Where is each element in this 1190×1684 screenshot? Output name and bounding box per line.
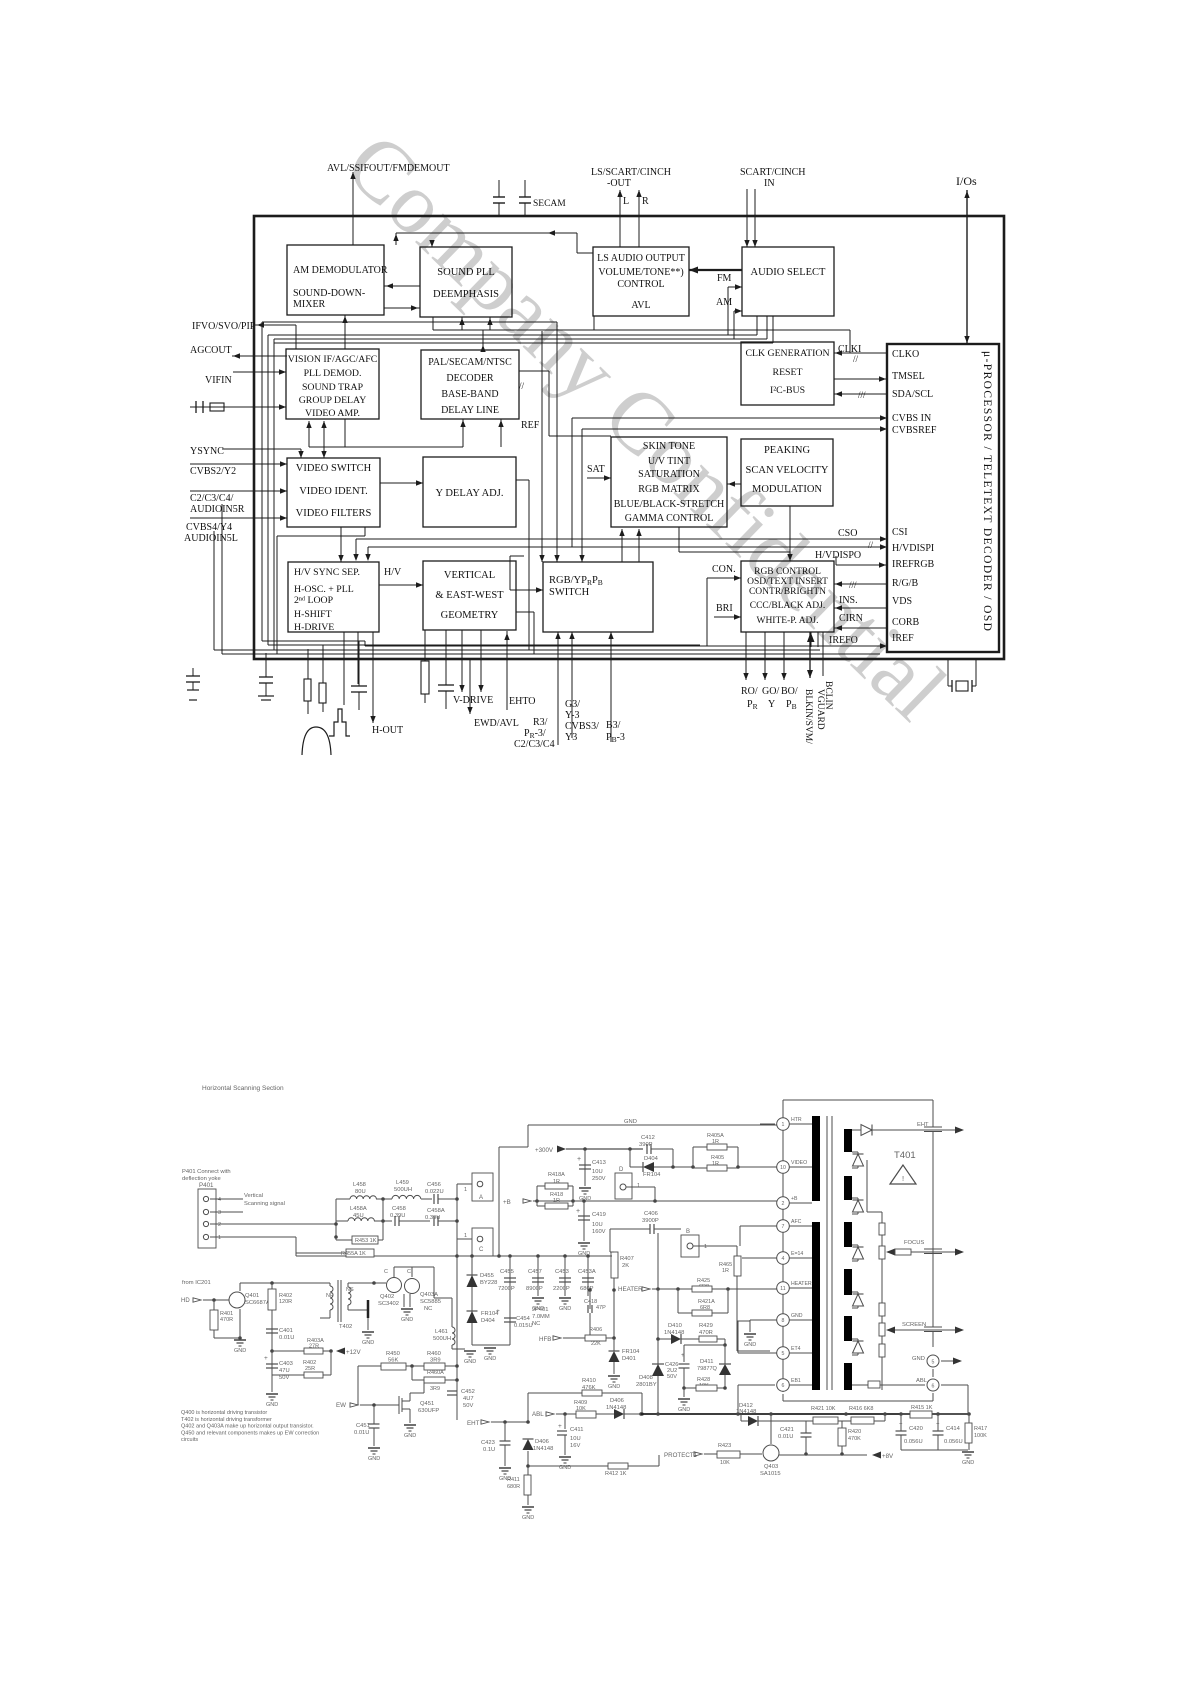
svg-text:SKIN TONE: SKIN TONE — [643, 441, 695, 452]
svg-text:4U7: 4U7 — [463, 1396, 474, 1402]
svg-text:PAL/SECAM/NTSC: PAL/SECAM/NTSC — [428, 357, 512, 368]
svg-text:PR: PR — [747, 699, 758, 711]
svg-text:SCREEN: SCREEN — [902, 1322, 926, 1328]
svg-text:///: /// — [858, 390, 866, 400]
svg-text:TMSEL: TMSEL — [892, 371, 925, 382]
svg-text:C2/C3/C4/: C2/C3/C4/ — [190, 493, 234, 504]
svg-text:C413: C413 — [592, 1160, 606, 1166]
svg-text:C2/C3/C4: C2/C3/C4 — [514, 739, 555, 750]
svg-text:IN: IN — [764, 178, 775, 189]
svg-text:Y3: Y3 — [565, 732, 577, 743]
svg-text:16V: 16V — [570, 1443, 580, 1449]
svg-text:0.1U: 0.1U — [483, 1447, 495, 1453]
svg-text:GND: GND — [368, 1456, 380, 1462]
svg-text:10K: 10K — [720, 1460, 730, 1466]
svg-text:CVBS2/Y2: CVBS2/Y2 — [190, 466, 236, 477]
svg-text:B: B — [686, 1229, 690, 1235]
svg-text:B3/: B3/ — [606, 720, 621, 731]
svg-text:D455: D455 — [480, 1273, 494, 1279]
svg-text:H-SHIFT: H-SHIFT — [294, 609, 332, 620]
svg-text:GND: GND — [464, 1359, 476, 1365]
svg-text:CSO: CSO — [838, 528, 857, 539]
svg-text:CVBS IN: CVBS IN — [892, 413, 931, 424]
svg-text:+B: +B — [791, 1196, 798, 1202]
svg-text:C412: C412 — [641, 1135, 655, 1141]
svg-text:AM: AM — [716, 297, 732, 308]
svg-text:CONTR/BRIGHTN: CONTR/BRIGHTN — [749, 587, 826, 597]
svg-text:160V: 160V — [592, 1229, 606, 1235]
svg-text:2200P: 2200P — [553, 1286, 570, 1292]
svg-text:ET4: ET4 — [791, 1346, 801, 1352]
svg-text:C406: C406 — [644, 1211, 658, 1217]
svg-text:C420: C420 — [909, 1426, 923, 1432]
svg-text:250V: 250V — [592, 1176, 606, 1182]
svg-text:REF: REF — [521, 420, 540, 431]
svg-text:GND: GND — [362, 1340, 374, 1346]
svg-text:AUDIO SELECT: AUDIO SELECT — [751, 267, 827, 278]
svg-text:Vertical: Vertical — [244, 1193, 263, 1199]
svg-text:SAT: SAT — [587, 464, 605, 475]
svg-text:RGB MATRIX: RGB MATRIX — [638, 484, 700, 495]
svg-text:HD: HD — [181, 1298, 190, 1304]
svg-text:Q402: Q402 — [380, 1294, 394, 1300]
svg-text:L459: L459 — [396, 1180, 409, 1186]
svg-text:6: 6 — [932, 1384, 935, 1390]
svg-text:R429: R429 — [699, 1323, 713, 1329]
svg-text:GND: GND — [234, 1348, 246, 1354]
svg-text:Scanning signal: Scanning signal — [244, 1201, 285, 1207]
svg-text:RO/: RO/ — [741, 686, 758, 697]
svg-text:P401: P401 — [199, 1182, 214, 1189]
svg-text:10: 10 — [780, 1165, 786, 1171]
svg-text:470K: 470K — [848, 1436, 861, 1442]
svg-text:1: 1 — [464, 1187, 467, 1193]
svg-text:GND: GND — [791, 1313, 803, 1319]
svg-text:+: + — [576, 1208, 580, 1215]
svg-text:0.01U: 0.01U — [354, 1430, 369, 1436]
svg-text:+300V: +300V — [535, 1147, 554, 1154]
svg-text:EHT: EHT — [467, 1420, 480, 1427]
svg-text:L: L — [623, 196, 629, 207]
svg-text:SC5885: SC5885 — [420, 1299, 441, 1305]
svg-text:L458A: L458A — [350, 1206, 367, 1212]
svg-text:H-OSC. + PLL: H-OSC. + PLL — [294, 584, 354, 595]
svg-text:HEATER: HEATER — [791, 1281, 812, 1287]
svg-text:C414: C414 — [946, 1426, 961, 1432]
svg-text:680P: 680P — [580, 1286, 594, 1292]
svg-text:GROUP DELAY: GROUP DELAY — [299, 395, 367, 406]
svg-text:Y: Y — [768, 699, 775, 710]
svg-text:FR104: FR104 — [643, 1172, 661, 1178]
svg-text:4: 4 — [782, 1256, 785, 1262]
svg-text:630UFP: 630UFP — [418, 1408, 439, 1414]
svg-text:HTR: HTR — [791, 1117, 802, 1123]
svg-text:NP: NP — [326, 1293, 334, 1299]
svg-text:E=14: E=14 — [791, 1251, 803, 1257]
svg-text:C456: C456 — [427, 1182, 441, 1188]
svg-text:D: D — [619, 1167, 624, 1173]
svg-text:D406: D406 — [610, 1398, 624, 1404]
svg-text:470R: 470R — [220, 1317, 233, 1323]
svg-text:7: 7 — [782, 1224, 785, 1230]
svg-text:2: 2 — [218, 1222, 221, 1228]
svg-text:+: + — [681, 1352, 685, 1359]
svg-text:H/V SYNC SEP.: H/V SYNC SEP. — [294, 567, 360, 578]
svg-text:Y DELAY ADJ.: Y DELAY ADJ. — [436, 488, 504, 499]
svg-text:RGB/YPRPB: RGB/YPRPB — [549, 575, 603, 587]
svg-text:EWD/AVL: EWD/AVL — [474, 718, 519, 729]
svg-text:MODULATION: MODULATION — [752, 484, 822, 495]
svg-text:1: 1 — [218, 1235, 221, 1241]
svg-text:7200P: 7200P — [498, 1286, 515, 1292]
svg-text:R453 1K: R453 1K — [355, 1238, 377, 1244]
svg-text:470R: 470R — [699, 1330, 713, 1336]
svg-text:VIDEO AMP.: VIDEO AMP. — [305, 408, 360, 419]
svg-text:C419: C419 — [592, 1212, 606, 1218]
svg-text:8: 8 — [782, 1318, 785, 1324]
svg-text:+: + — [577, 1156, 581, 1163]
svg-text:CON.: CON. — [712, 564, 736, 575]
svg-text:22K: 22K — [591, 1341, 601, 1347]
svg-text:8900P: 8900P — [526, 1286, 543, 1292]
svg-text:Q403A: Q403A — [420, 1292, 438, 1298]
svg-text:μ-PROCESSOR / TELETEXT DECODER: μ-PROCESSOR / TELETEXT DECODER / OSD — [981, 351, 993, 632]
svg-text:BY228: BY228 — [480, 1280, 497, 1286]
svg-text:D404: D404 — [644, 1156, 659, 1162]
svg-text:5: 5 — [932, 1360, 935, 1366]
svg-text:VIDEO SWITCH: VIDEO SWITCH — [296, 463, 372, 474]
svg-text:SC3402: SC3402 — [378, 1301, 399, 1307]
svg-text:5: 5 — [782, 1351, 785, 1357]
svg-text:YSYNC: YSYNC — [190, 446, 224, 457]
svg-text:SOUND PLL: SOUND PLL — [437, 267, 494, 278]
svg-text:C421: C421 — [780, 1427, 794, 1433]
svg-text:HEATER: HEATER — [618, 1286, 643, 1293]
svg-text:CSI: CSI — [892, 527, 908, 538]
svg-text:CVBSREF: CVBSREF — [892, 425, 937, 436]
svg-text:0.056U: 0.056U — [944, 1439, 963, 1445]
svg-text:GND: GND — [624, 1119, 637, 1125]
svg-text:AM DEMODULATOR: AM DEMODULATOR — [293, 265, 388, 276]
svg-text:100K: 100K — [974, 1433, 987, 1439]
svg-text:R421 10K: R421 10K — [811, 1406, 836, 1412]
svg-text:NC: NC — [424, 1306, 432, 1312]
svg-text:H/VDISPO: H/VDISPO — [815, 550, 861, 561]
svg-text:CIRN: CIRN — [839, 613, 863, 624]
svg-text:D408: D408 — [639, 1375, 653, 1381]
svg-text:1: 1 — [782, 1122, 785, 1128]
svg-text:VIFIN: VIFIN — [205, 375, 232, 386]
svg-text:R412 1K: R412 1K — [605, 1471, 627, 1477]
svg-text:GND: GND — [912, 1356, 925, 1362]
svg-text:C: C — [384, 1269, 388, 1275]
svg-text:R460A: R460A — [427, 1370, 444, 1376]
svg-text:WHITE-P. ADJ.: WHITE-P. ADJ. — [756, 616, 818, 626]
svg-text:47U: 47U — [279, 1368, 290, 1374]
svg-text:500UH: 500UH — [433, 1336, 451, 1342]
svg-text:AGCOUT: AGCOUT — [190, 345, 232, 356]
svg-text:D401: D401 — [622, 1356, 636, 1362]
svg-text:120R: 120R — [279, 1299, 292, 1305]
svg-text:VOLUME/TONE**): VOLUME/TONE**) — [598, 267, 683, 278]
svg-text:SDA/SCL: SDA/SCL — [892, 389, 933, 400]
svg-text:7.0MM: 7.0MM — [532, 1314, 550, 1320]
svg-text:1N4148: 1N4148 — [533, 1446, 553, 1452]
svg-text:CONTROL: CONTROL — [617, 279, 664, 290]
svg-text:CVBS3/: CVBS3/ — [565, 721, 599, 732]
svg-text:SC6687A: SC6687A — [245, 1300, 270, 1306]
svg-text:VDS: VDS — [892, 596, 912, 607]
svg-text:INS.: INS. — [839, 595, 858, 606]
svg-text:10U: 10U — [592, 1169, 603, 1175]
svg-text:JP401: JP401 — [532, 1307, 548, 1313]
svg-text:GND: GND — [678, 1407, 690, 1413]
svg-text:2801BY: 2801BY — [636, 1382, 657, 1388]
svg-text:R415 1K: R415 1K — [911, 1405, 933, 1411]
svg-text://: // — [868, 540, 874, 550]
svg-text:LS AUDIO OUTPUT: LS AUDIO OUTPUT — [597, 253, 685, 264]
svg-text:2ⁿᵈ LOOP: 2ⁿᵈ LOOP — [294, 595, 334, 606]
svg-text:C453A: C453A — [578, 1269, 596, 1275]
svg-text:R/G/B: R/G/B — [892, 578, 918, 589]
svg-text:C454: C454 — [516, 1316, 531, 1322]
svg-text:HFB: HFB — [539, 1336, 551, 1343]
svg-text:C403: C403 — [279, 1361, 293, 1367]
svg-text:GND: GND — [962, 1460, 974, 1466]
svg-text:+: + — [496, 1308, 500, 1315]
svg-text:!: ! — [902, 1174, 904, 1183]
svg-text:50V: 50V — [463, 1403, 473, 1409]
svg-text:R3/: R3/ — [533, 717, 548, 728]
svg-text:ABL: ABL — [532, 1411, 544, 1418]
svg-text://: // — [519, 381, 525, 391]
svg-text:BO/: BO/ — [781, 686, 798, 697]
svg-text:-OUT: -OUT — [607, 178, 631, 189]
svg-text:0.01U: 0.01U — [279, 1335, 294, 1341]
svg-text:NS: NS — [346, 1287, 354, 1293]
svg-text:C455: C455 — [500, 1269, 514, 1275]
svg-text:RGB CONTROL: RGB CONTROL — [754, 567, 821, 577]
svg-text:CVBS4/Y4: CVBS4/Y4 — [186, 522, 232, 533]
svg-text:2K: 2K — [622, 1263, 629, 1269]
svg-text:R455A 1K: R455A 1K — [341, 1251, 366, 1257]
svg-text:G3/: G3/ — [565, 699, 580, 710]
svg-text:C458: C458 — [392, 1206, 406, 1212]
svg-text:VIDEO IDENT.: VIDEO IDENT. — [299, 486, 368, 497]
svg-text:PLL DEMOD.: PLL DEMOD. — [304, 368, 362, 379]
svg-text:GND: GND — [744, 1342, 756, 1348]
svg-text:C401: C401 — [279, 1328, 293, 1334]
svg-text:T401: T401 — [894, 1150, 916, 1161]
svg-text:V-DRIVE: V-DRIVE — [453, 695, 493, 706]
svg-text:10U: 10U — [570, 1436, 581, 1442]
svg-text:CCC/BLACK ADJ.: CCC/BLACK ADJ. — [750, 601, 826, 611]
svg-text:47P: 47P — [596, 1305, 606, 1311]
svg-text:R417: R417 — [974, 1426, 987, 1432]
svg-text:BLUE/BLACK-STRETCH: BLUE/BLACK-STRETCH — [614, 499, 725, 510]
svg-text:Q400 is horizontal driving tra: Q400 is horizontal driving transistor — [181, 1410, 267, 1416]
svg-text:D411: D411 — [700, 1359, 713, 1365]
svg-text:+B: +B — [503, 1199, 511, 1206]
svg-text:79877Q: 79877Q — [697, 1366, 718, 1372]
svg-text:GND: GND — [266, 1402, 278, 1408]
svg-text:0.01U: 0.01U — [778, 1434, 793, 1440]
svg-text:H-OUT: H-OUT — [372, 725, 403, 736]
svg-text:///: /// — [849, 580, 857, 590]
svg-text:I/Os: I/Os — [956, 174, 977, 188]
svg-text:GEOMETRY: GEOMETRY — [441, 610, 499, 621]
svg-text:AUDIOIN5L: AUDIOIN5L — [184, 533, 238, 544]
svg-text:FOCUS: FOCUS — [904, 1240, 924, 1246]
svg-text:SECAM: SECAM — [533, 199, 566, 209]
svg-text:3: 3 — [218, 1210, 221, 1216]
svg-text:FR104: FR104 — [622, 1349, 640, 1355]
svg-text:SCART/CINCH: SCART/CINCH — [740, 167, 806, 178]
svg-text:R406: R406 — [589, 1327, 602, 1333]
svg-text:CLKO: CLKO — [892, 349, 919, 360]
svg-text:R411: R411 — [507, 1477, 520, 1483]
svg-text:A: A — [479, 1195, 483, 1201]
svg-text:R460: R460 — [427, 1351, 441, 1357]
svg-text:1: 1 — [637, 1183, 640, 1189]
svg-text:6: 6 — [782, 1383, 785, 1389]
svg-text:AFC: AFC — [791, 1219, 802, 1225]
svg-text:DECODER: DECODER — [446, 373, 494, 384]
svg-text:Y-3: Y-3 — [565, 710, 579, 721]
svg-text:OSD/TEXT INSERT: OSD/TEXT INSERT — [747, 577, 828, 587]
svg-text:GND: GND — [404, 1433, 416, 1439]
svg-text:from IC201: from IC201 — [182, 1280, 211, 1286]
svg-text:10U: 10U — [592, 1222, 603, 1228]
svg-text:LS/SCART/CINCH: LS/SCART/CINCH — [591, 167, 671, 178]
svg-text:500UH: 500UH — [394, 1187, 412, 1193]
svg-text:R450: R450 — [386, 1351, 400, 1357]
svg-text:AVL/SSIFOUT/FMDEMOUT: AVL/SSIFOUT/FMDEMOUT — [327, 163, 450, 174]
svg-text:VISION IF/AGC/AFC: VISION IF/AGC/AFC — [288, 354, 378, 365]
svg-text:3R9: 3R9 — [430, 1386, 440, 1392]
svg-text:C423: C423 — [481, 1440, 495, 1446]
svg-text:+8V: +8V — [882, 1453, 894, 1460]
svg-text:GND: GND — [608, 1384, 620, 1390]
svg-text:Horizontal Scanning Section: Horizontal Scanning Section — [202, 1085, 284, 1092]
svg-text:EB1: EB1 — [791, 1378, 801, 1384]
svg-text:I²C-BUS: I²C-BUS — [770, 385, 805, 396]
svg-text:C: C — [407, 1269, 411, 1275]
svg-text:T402 is horizontal driving tra: T402 is horizontal driving transformer — [181, 1417, 272, 1423]
svg-text:L458: L458 — [353, 1182, 366, 1188]
svg-text:VIDEO FILTERS: VIDEO FILTERS — [296, 508, 372, 519]
svg-text:C411: C411 — [570, 1427, 583, 1433]
svg-text:VERTICAL: VERTICAL — [444, 570, 495, 581]
svg-text:U/V TINT: U/V TINT — [648, 456, 690, 467]
svg-text:& EAST-WEST: & EAST-WEST — [435, 590, 504, 601]
svg-text:GO/: GO/ — [762, 686, 779, 697]
svg-text:D406: D406 — [535, 1439, 549, 1445]
svg-text:VGUARD: VGUARD — [815, 689, 825, 730]
svg-text:4: 4 — [218, 1197, 221, 1203]
svg-text:GND: GND — [559, 1306, 571, 1312]
svg-text:AUDIOIN5R: AUDIOIN5R — [190, 504, 245, 515]
svg-text:D410: D410 — [668, 1323, 682, 1329]
svg-text:C: C — [479, 1247, 484, 1253]
svg-text:SOUND TRAP: SOUND TRAP — [302, 382, 364, 393]
svg-text:IFVO/SVO/PIP: IFVO/SVO/PIP — [192, 321, 256, 332]
svg-text:0.056U: 0.056U — [904, 1439, 923, 1445]
svg-text:BASE-BAND: BASE-BAND — [441, 389, 498, 400]
svg-text:MIXER: MIXER — [293, 299, 326, 310]
svg-text:0.39U: 0.39U — [390, 1213, 405, 1219]
svg-text:Q402 and Q403A make up horizon: Q402 and Q403A make up horizontal output… — [181, 1424, 314, 1430]
svg-text:SWITCH: SWITCH — [549, 587, 590, 598]
svg-text:R420: R420 — [848, 1429, 861, 1435]
svg-text:NC: NC — [532, 1321, 540, 1327]
svg-text:1: 1 — [704, 1244, 707, 1250]
svg-text:DELAY LINE: DELAY LINE — [441, 405, 499, 416]
svg-text:R418A: R418A — [548, 1172, 565, 1178]
svg-text:Q403: Q403 — [764, 1464, 778, 1470]
svg-text:H/V: H/V — [384, 567, 402, 578]
svg-text:L461: L461 — [435, 1329, 448, 1335]
svg-text:680R: 680R — [507, 1484, 520, 1490]
svg-text://: // — [853, 354, 859, 364]
svg-text:1N4148: 1N4148 — [736, 1409, 756, 1415]
svg-text:11: 11 — [780, 1286, 785, 1292]
svg-text:C452: C452 — [461, 1389, 475, 1395]
svg-text:BRI: BRI — [716, 603, 733, 614]
svg-text:80U: 80U — [355, 1189, 366, 1195]
svg-text:PEAKING: PEAKING — [764, 445, 810, 456]
svg-text:GAMMA CONTROL: GAMMA CONTROL — [625, 513, 714, 524]
svg-text:PB-3: PB-3 — [606, 732, 625, 744]
svg-text:C458A: C458A — [427, 1208, 445, 1214]
svg-text:+: + — [264, 1355, 268, 1362]
svg-text:IREFRGB: IREFRGB — [892, 559, 935, 570]
svg-text:RESET: RESET — [773, 367, 803, 378]
svg-text:IREF: IREF — [892, 633, 914, 644]
svg-text:1R: 1R — [722, 1268, 729, 1274]
svg-text:T402: T402 — [339, 1324, 352, 1330]
svg-text:P401 Connect with: P401 Connect with — [182, 1169, 231, 1175]
svg-text:PROTECT1: PROTECT1 — [664, 1452, 698, 1459]
svg-text:R: R — [642, 196, 649, 207]
svg-text:GND: GND — [484, 1356, 496, 1362]
svg-text:BLKIN/SVM/: BLKIN/SVM/ — [803, 689, 813, 744]
svg-text:PB: PB — [786, 699, 797, 711]
svg-text:DEEMPHASIS: DEEMPHASIS — [433, 289, 499, 300]
svg-text:0.015U: 0.015U — [514, 1323, 533, 1329]
svg-text:Company Confidential: Company Confidential — [328, 114, 966, 738]
svg-text:ABL: ABL — [916, 1378, 928, 1384]
svg-text:D404: D404 — [481, 1318, 496, 1324]
svg-text:H/VDISPI: H/VDISPI — [892, 543, 934, 554]
svg-text:SCAN VELOCITY: SCAN VELOCITY — [746, 465, 829, 476]
svg-text:SATURATION: SATURATION — [638, 469, 700, 480]
svg-text:GND: GND — [401, 1317, 413, 1323]
svg-text:C453: C453 — [555, 1269, 569, 1275]
svg-text:+12V: +12V — [346, 1349, 361, 1356]
svg-text:SOUND-DOWN-: SOUND-DOWN- — [293, 288, 365, 299]
svg-text:H-DRIVE: H-DRIVE — [294, 622, 334, 633]
svg-text:AVL: AVL — [631, 300, 650, 311]
svg-text:50V: 50V — [667, 1374, 677, 1380]
svg-text:1: 1 — [464, 1233, 467, 1239]
svg-text:EHTO: EHTO — [509, 696, 535, 707]
svg-text:2: 2 — [782, 1201, 785, 1207]
svg-text:C457: C457 — [528, 1269, 542, 1275]
svg-text:R410: R410 — [582, 1378, 596, 1384]
svg-text:R423: R423 — [718, 1443, 731, 1449]
svg-text:25R: 25R — [305, 1366, 315, 1372]
